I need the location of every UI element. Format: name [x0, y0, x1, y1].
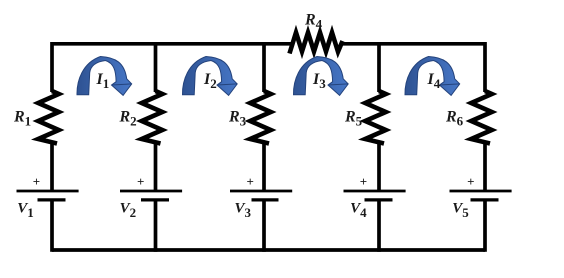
svg-text:R3: R3 — [228, 109, 247, 129]
arrow I3 head base edge — [328, 84, 348, 85]
wire: branch 4 upper segment (top bus to resistor) — [377, 42, 381, 92]
wire: branch 2 middle segment (resistor to battery) — [154, 143, 158, 191]
resistor R5 — [344, 91, 386, 144]
wire: branch 3 middle segment (resistor to battery) — [262, 143, 266, 191]
svg-text:R6: R6 — [445, 109, 464, 129]
wire: top bus right segment (from R4 to right corner) — [341, 42, 485, 46]
resistor R2 — [119, 91, 163, 144]
svg-text:+: + — [246, 174, 253, 189]
svg-text:I1: I1 — [96, 71, 110, 91]
battery V1 negative plate (short) — [38, 198, 66, 201]
arrow I4 curved body with arrowhead — [405, 57, 460, 96]
battery V4 negative plate (short) — [365, 198, 393, 201]
wire: top bus left segment (node top, from left corner to R4) — [52, 42, 294, 46]
resistor R6 — [445, 91, 492, 144]
svg-text:I4: I4 — [427, 71, 441, 91]
mesh current arrow I1 — [77, 57, 132, 96]
svg-text:V2: V2 — [120, 201, 137, 221]
svg-text:+: + — [33, 174, 40, 189]
battery V3 negative plate (short) — [252, 198, 279, 201]
wire: branch 4 lower segment (battery to bottom bus) — [377, 200, 381, 252]
svg-text:R2: R2 — [119, 109, 137, 129]
wire: branch 1 middle segment (resistor to battery) — [50, 143, 54, 191]
wire: branch 1 lower segment (battery to bottom bus) — [50, 200, 54, 252]
mesh current arrow I2 — [182, 57, 237, 96]
arrow I3 curved body with arrowhead — [293, 57, 348, 96]
wire: bottom bus (node bottom) — [52, 248, 485, 252]
wire: branch 1 upper segment (top bus to resistor) — [50, 42, 54, 92]
wire: branch 4 middle segment (resistor to battery) — [377, 143, 381, 191]
svg-text:+: + — [137, 174, 144, 189]
svg-text:V5: V5 — [452, 201, 469, 221]
arrow I4 head base edge — [440, 84, 460, 85]
wire: branch 5 upper segment (top bus to resistor) — [483, 42, 487, 92]
wire: branch 5 lower segment (battery to bottom bus) — [483, 200, 487, 252]
battery V2 — [120, 174, 183, 220]
svg-text:R1: R1 — [13, 109, 31, 129]
svg-text:+: + — [360, 174, 367, 189]
battery V1 — [17, 174, 79, 220]
battery V4 positive plate (long) — [344, 190, 406, 193]
arrow I1 curved body with arrowhead — [77, 57, 132, 96]
resistor R3 — [228, 91, 271, 144]
arrow I2 head base edge — [217, 84, 237, 85]
mesh current arrow I4 — [405, 57, 460, 96]
svg-text:I3: I3 — [312, 71, 326, 91]
battery V5 positive plate (long) — [450, 190, 512, 193]
svg-text:V1: V1 — [17, 201, 34, 221]
svg-text:R4: R4 — [304, 12, 323, 32]
wire: branch 5 middle segment (resistor to battery) — [483, 143, 487, 191]
svg-text:V4: V4 — [350, 201, 367, 221]
battery V5 — [450, 174, 512, 220]
battery V4 — [344, 174, 406, 220]
battery V3 — [230, 174, 292, 220]
resistor R4 (horizontal, in top bus) — [290, 12, 343, 54]
wire: branch 3 lower segment (battery to bottom bus) — [262, 200, 266, 252]
arrow I2 curved body with arrowhead — [182, 57, 237, 96]
wire: branch 3 upper segment (top bus to resistor) — [262, 42, 266, 92]
svg-text:I2: I2 — [203, 71, 217, 91]
svg-text:R5: R5 — [344, 109, 363, 129]
battery V1 positive plate (long) — [17, 190, 79, 193]
battery V2 positive plate (long) — [120, 190, 182, 193]
wire: branch 2 upper segment (top bus to resistor) — [154, 42, 158, 92]
svg-text:V3: V3 — [235, 201, 252, 221]
battery V3 positive plate (long) — [230, 190, 292, 193]
resistor R1 — [13, 91, 59, 144]
arrow I1 head base edge — [112, 84, 132, 85]
wire: branch 2 lower segment (battery to bottom bus) — [154, 200, 158, 252]
svg-text:+: + — [467, 174, 474, 189]
battery V2 negative plate (short) — [141, 198, 169, 201]
mesh current arrow I3 — [293, 57, 348, 96]
battery V5 negative plate (short) — [471, 198, 499, 201]
